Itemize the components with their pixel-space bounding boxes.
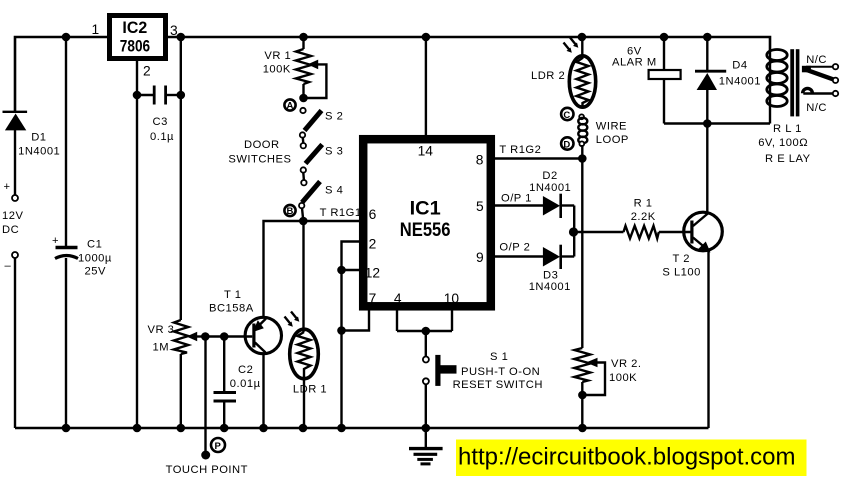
svg-text:IC2: IC2 (122, 18, 147, 37)
node: collector junction (703, 119, 712, 128)
svg-text:12V: 12V (2, 210, 23, 222)
pin 2 of IC1 (342, 237, 377, 271)
switch S1 push-to-on (423, 355, 457, 386)
switch S2 (300, 108, 322, 138)
svg-text:8: 8 (476, 153, 484, 168)
label 12V DC (2, 210, 23, 236)
svg-text:WIRE: WIRE (596, 121, 627, 133)
pin 1 of IC2 (92, 22, 100, 37)
potentiometer VR1 (296, 37, 327, 102)
node: junction pin3 column on top bus (177, 33, 186, 42)
node: TRIG2 junction (578, 154, 587, 163)
svg-text:100K: 100K (609, 372, 637, 384)
svg-text:4: 4 (394, 291, 402, 306)
svg-text:0.1µ: 0.1µ (150, 131, 174, 143)
potentiometer VR2 (574, 348, 605, 428)
svg-text:ALAR M: ALAR M (612, 57, 657, 69)
svg-text:S L100: S L100 (662, 267, 700, 279)
yellow banner (456, 440, 807, 477)
wire: output to R1 (crosses TRIG2 column) (574, 231, 623, 233)
svg-text:0.01µ: 0.01µ (230, 378, 261, 390)
node: C3 left junction (133, 91, 142, 100)
svg-text:1N4001: 1N4001 (719, 75, 761, 87)
svg-text:N/C: N/C (806, 102, 827, 114)
wire: top supply bus, IC2 pin 3 to relay (168, 37, 770, 51)
svg-text:IC1: IC1 (410, 199, 442, 220)
svg-text:2: 2 (369, 237, 377, 252)
label T1 value (209, 289, 254, 315)
pin 10 of IC1 (444, 291, 460, 331)
svg-text:O/P 1: O/P 1 (501, 193, 532, 205)
label WIRE LOOP (596, 121, 629, 147)
svg-text:1N4001: 1N4001 (529, 281, 571, 293)
svg-text:VR 3: VR 3 (148, 324, 175, 336)
wire: touch point drop (crosses ground bus) (201, 337, 210, 460)
transistor T1 BC158A (PNP) (245, 317, 281, 353)
svg-text:2.2K: 2.2K (631, 211, 656, 223)
diode D4 (695, 37, 726, 124)
svg-text:D4: D4 (732, 60, 747, 72)
label C2 value (230, 364, 261, 390)
svg-text:NE556: NE556 (400, 220, 451, 241)
transistor T2 SL100 (NPN) (684, 212, 723, 252)
label 6V ALARM (612, 46, 657, 69)
pin 8 of IC1 (TRIG2) (476, 153, 583, 168)
svg-text:1000µ: 1000µ (78, 253, 112, 265)
wire: pin4-pin10 connector (397, 330, 452, 332)
label R1 value (631, 198, 656, 224)
svg-text:5: 5 (476, 199, 484, 214)
svg-text:T R1G1: T R1G1 (320, 207, 362, 219)
label S2 (325, 111, 343, 123)
wire: C1 column upper (65, 37, 67, 247)
wire: pin3 junction down to VR3 (180, 37, 182, 320)
label LDR1 (293, 384, 327, 396)
node: D4 top bus junction (703, 33, 712, 42)
svg-text:2: 2 (143, 64, 151, 79)
svg-text:SWITCHES: SWITCHES (228, 154, 291, 166)
svg-text:C3: C3 (153, 116, 168, 128)
svg-text:O/P 2: O/P 2 (499, 242, 530, 254)
pin 4 of IC1 (394, 291, 402, 331)
node B (284, 205, 295, 217)
wire: TRIG1 node down to LDR1 (302, 221, 304, 332)
wire: C1 column lower (65, 258, 67, 428)
svg-text:6: 6 (369, 207, 377, 222)
label S3 (325, 146, 343, 158)
wire: pin12 column down to ground bus (340, 270, 342, 428)
node A (284, 99, 295, 111)
node: alarm top bus junction (660, 33, 669, 42)
svg-text:D1: D1 (31, 131, 46, 143)
node: LDR1 ground junction (299, 424, 308, 433)
node: reset junction (422, 327, 431, 336)
label N/C lower (806, 102, 827, 114)
wire: VR3 wiper to T1 base (205, 335, 252, 337)
LDR LDR2 (569, 37, 595, 107)
wire: TRIG2 column down to VR2 (crosses R1 wire) (581, 159, 583, 349)
node C (561, 108, 573, 121)
svg-text:LDR 1: LDR 1 (293, 384, 327, 396)
svg-text:6V, 100Ω: 6V, 100Ω (758, 137, 808, 149)
svg-text:LOOP: LOOP (596, 134, 629, 146)
svg-text:1M: 1M (153, 342, 170, 354)
alarm 6V (buzzer) (649, 37, 681, 124)
svg-text:R L 1: R L 1 (773, 123, 802, 135)
wire loop coil (578, 114, 587, 146)
label VR2 value (609, 358, 641, 384)
resistor R1 (624, 226, 691, 239)
svg-text:VR 2.: VR 2. (611, 358, 641, 370)
pin 7 of IC1 (342, 291, 377, 331)
svg-text:1N4001: 1N4001 (18, 145, 60, 157)
label S4 (325, 185, 343, 197)
wire: T1 collector to ground bus (262, 353, 264, 429)
node: junction top bus / C1 (62, 33, 71, 42)
wire: junction down to T2 collector (706, 124, 708, 215)
pin 12 of IC1 (342, 266, 381, 281)
wire: reset junction to S1 (425, 331, 427, 357)
label N/C upper (806, 54, 827, 66)
label RL1 value (758, 123, 810, 165)
relay RL1 coil (767, 50, 787, 124)
node D (561, 137, 573, 150)
label TRIG2 (499, 144, 541, 156)
regulator IC2 7806 (110, 16, 166, 59)
svg-text:R E LAY: R E LAY (765, 153, 811, 165)
node: C2 ground junction (220, 424, 229, 433)
wire: S1 to ground bus (425, 384, 427, 429)
svg-text:DC: DC (2, 224, 19, 236)
svg-text:P: P (215, 441, 222, 452)
svg-text:S 1: S 1 (490, 351, 508, 363)
svg-text:D3: D3 (543, 270, 558, 282)
svg-text:T R1G2: T R1G2 (499, 144, 541, 156)
pin 6 of IC1 (369, 207, 377, 222)
svg-text:100K: 100K (263, 64, 291, 76)
wire: TRIG1 line from T1 emitter column to IC1 pin 6 (264, 221, 360, 318)
node: T1 collector ground junction (259, 424, 268, 433)
wire: T2 emitter to ground bus corner (707, 250, 709, 428)
relay contact upper N/C (802, 64, 838, 83)
node: VR2 ground junction (578, 424, 587, 433)
pin 9 of IC1 (O/P 2) (476, 250, 544, 265)
svg-text:10: 10 (444, 291, 460, 306)
label S1 (453, 351, 543, 391)
svg-text:1N4001: 1N4001 (529, 182, 571, 194)
svg-text:D2: D2 (542, 170, 557, 182)
label T2 value (662, 253, 700, 279)
svg-text:B: B (287, 206, 294, 217)
svg-text:12: 12 (365, 266, 380, 281)
label TOUCH POINT (166, 464, 248, 476)
svg-text:S 4: S 4 (325, 185, 343, 197)
svg-text:14: 14 (418, 144, 434, 159)
svg-text:+: + (52, 235, 59, 247)
svg-text:D: D (563, 139, 570, 150)
node: C1 to ground bus (62, 424, 71, 433)
node: VR3 to ground bus (177, 424, 186, 433)
wire: IC2 pin 2 down to C3 and ground bus (136, 58, 138, 428)
svg-text:BC158A: BC158A (209, 303, 254, 315)
label TRIG1 (320, 207, 362, 219)
node: 12V + terminal (4, 181, 19, 201)
label VR3 value (148, 324, 175, 354)
node: C2 top junction (220, 332, 229, 341)
wire: alarm/D4/relay bottom connector (664, 122, 770, 124)
switch S4 (299, 180, 320, 208)
label DOOR SWITCHES (228, 139, 291, 166)
node: IC2 pin2 column to ground bus (133, 424, 142, 433)
node: wiper junction to touch point (201, 332, 210, 341)
svg-text:T 1: T 1 (224, 289, 241, 301)
svg-text:A: A (287, 101, 294, 112)
label D3 value (529, 270, 571, 294)
svg-text:1: 1 (92, 22, 100, 37)
node: 12V - terminal (5, 252, 19, 272)
label D2 value (529, 170, 571, 194)
pin 5 of IC1 (O/P 1) (476, 199, 544, 214)
diode D2 (543, 194, 574, 218)
pin 14 of IC1 (418, 37, 434, 159)
wire: S2 to S3 (302, 138, 305, 144)
wire: bottom ground bus (15, 427, 709, 430)
label C1 value (78, 239, 112, 278)
relay contact lower N/C (803, 88, 839, 96)
pin 3 of IC2 (170, 23, 178, 38)
LDR LDR1 (290, 329, 319, 379)
svg-text:N/C: N/C (806, 54, 827, 66)
svg-text:LDR 2: LDR 2 (531, 70, 565, 82)
node: junction top bus / VR1 (299, 33, 308, 42)
svg-text:T 2: T 2 (673, 253, 690, 265)
ground symbol (409, 428, 443, 464)
svg-text:–: – (5, 260, 12, 272)
diode D1 (3, 112, 28, 195)
svg-text:R 1: R 1 (634, 198, 653, 210)
wire: top supply bus, left segment to IC2 pin 1 (15, 37, 107, 111)
capacitor C3 (137, 86, 181, 105)
svg-text:VR 1: VR 1 (264, 50, 291, 62)
node: pin 14 top bus junction (422, 33, 431, 42)
svg-text:25V: 25V (85, 266, 106, 278)
svg-text:9: 9 (476, 250, 484, 265)
wire: LDR1 to ground bus (303, 376, 305, 428)
node: output junction (569, 227, 578, 236)
node: LDR2 top bus junction (578, 33, 587, 42)
svg-text:7806: 7806 (120, 37, 150, 56)
capacitor C2 (214, 337, 237, 429)
node P touch point (211, 438, 225, 452)
switch S3 (301, 143, 323, 173)
label O/P 2 (499, 242, 530, 254)
svg-text:RESET SWITCH: RESET SWITCH (453, 379, 543, 391)
svg-text:TOUCH POINT: TOUCH POINT (166, 464, 248, 476)
node: pin2/pin12 junction (337, 266, 346, 275)
LDR1 light arrows (285, 312, 300, 327)
svg-text:DOOR: DOOR (244, 139, 280, 151)
svg-text:C2: C2 (238, 364, 253, 376)
wire: loop to TRIG2 node (581, 145, 583, 159)
svg-text:S 3: S 3 (325, 146, 343, 158)
capacitor C1 (52, 235, 78, 259)
label VR1 value (263, 50, 292, 76)
label D1 value (18, 131, 60, 157)
label LDR2 (531, 70, 565, 82)
node: pin12 column ground junction (337, 424, 346, 433)
svg-text:S 2: S 2 (325, 111, 343, 123)
wire: S4 down to TRIG1 node (302, 208, 303, 221)
LDR2 light arrows (564, 38, 579, 53)
wire: - terminal down to ground bus (14, 258, 16, 428)
diode D3 (543, 245, 574, 269)
label D4 value (719, 60, 761, 88)
node: S1 ground junction (422, 424, 431, 433)
node: TRIG1 junction (299, 217, 308, 226)
op-amp/timer IC1 NE556 (363, 139, 491, 306)
svg-text:+: + (4, 181, 11, 193)
wire: D2/D3 cathode tie (573, 206, 575, 257)
wire: S3 to S4 (302, 173, 305, 181)
label O/P 1 (501, 193, 532, 205)
potentiometer VR3 (174, 320, 206, 428)
relay core bars (790, 49, 799, 116)
svg-text:http://ecircuitbook.blogspot.c: http://ecircuitbook.blogspot.com (458, 444, 796, 471)
node: C3 right junction (177, 91, 186, 100)
svg-text:PUSH-T O-ON: PUSH-T O-ON (461, 366, 540, 378)
node: pin7 junction (337, 326, 346, 335)
label C3 value (150, 116, 174, 143)
svg-text:C: C (563, 110, 570, 121)
svg-text:7: 7 (369, 291, 377, 306)
pin 2 of IC2 (143, 64, 151, 79)
svg-text:C1: C1 (87, 239, 102, 251)
